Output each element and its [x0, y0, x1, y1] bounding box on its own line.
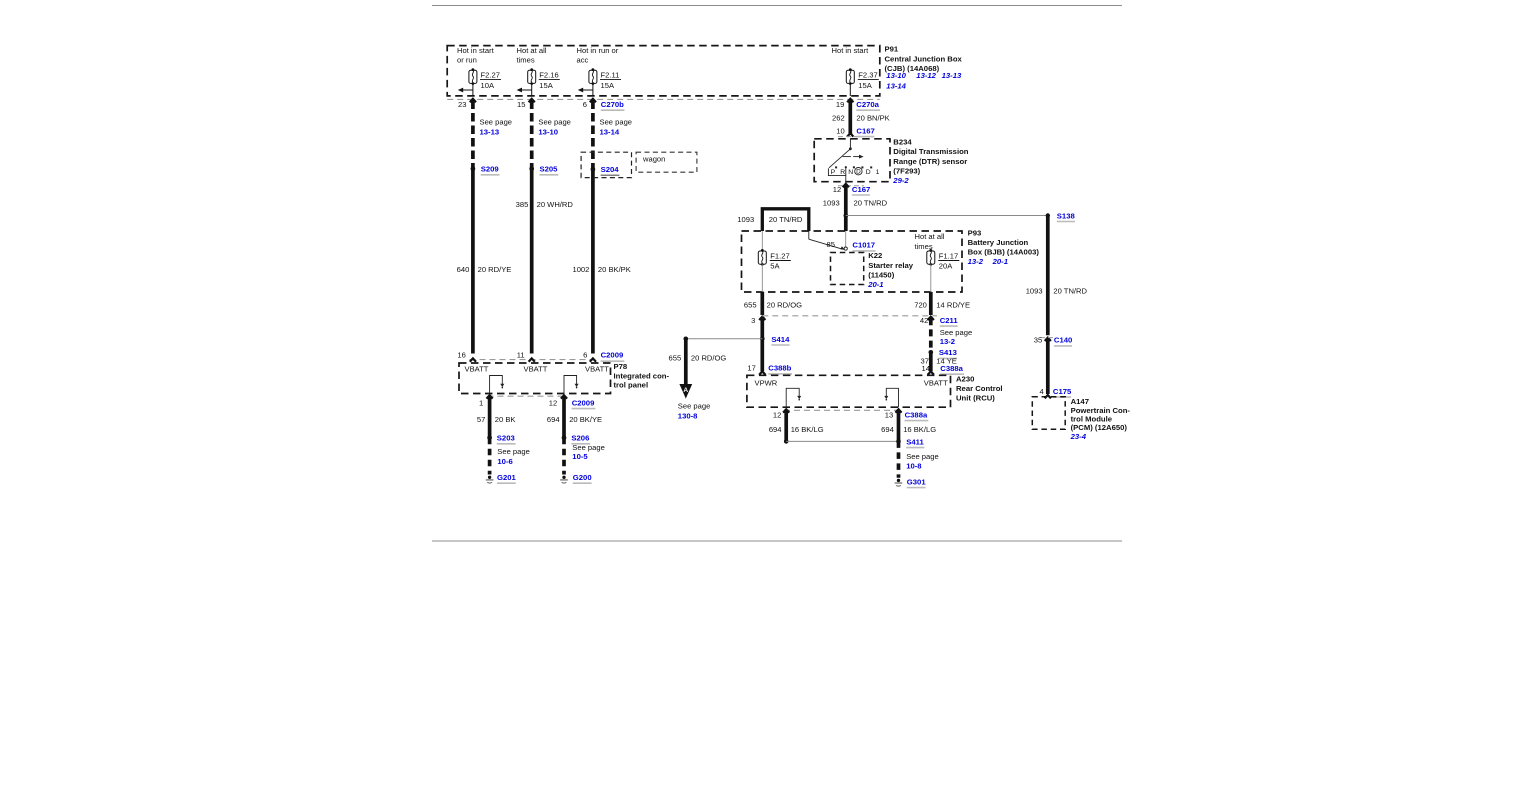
svg-text:(PCM) (12A650): (PCM) (12A650) [1071, 423, 1128, 432]
svg-text:acc: acc [577, 56, 589, 65]
svg-text:15: 15 [517, 100, 525, 109]
svg-text:10: 10 [836, 126, 844, 135]
svg-text:13-13: 13-13 [942, 71, 962, 80]
svg-text:23: 23 [458, 100, 466, 109]
wagon box [636, 152, 697, 172]
svg-text:VBATT: VBATT [924, 378, 948, 387]
svg-text:P: P [831, 169, 836, 176]
svg-text:S204: S204 [601, 165, 620, 174]
A230 text block [956, 374, 1003, 402]
splice S209 [471, 165, 500, 175]
svg-text:See page: See page [600, 118, 633, 127]
branch wire 1093 20 TN/RD into BJB [762, 209, 809, 231]
svg-text:720: 720 [914, 300, 927, 309]
svg-text:See page: See page [480, 118, 513, 127]
svg-text:S206: S206 [571, 434, 589, 443]
svg-text:13-10: 13-10 [538, 128, 558, 137]
svg-text:20 RD/OG: 20 RD/OG [767, 300, 803, 309]
svg-text:See page: See page [906, 452, 939, 461]
wire 1093 below DTR [843, 184, 849, 231]
svg-text:VPWR: VPWR [755, 378, 778, 387]
svg-text:A: A [683, 387, 688, 394]
svg-text:C140: C140 [1054, 336, 1072, 345]
wire 57 20 BK [487, 395, 493, 474]
connector C2009 [601, 351, 625, 362]
splice S205 [529, 165, 558, 175]
svg-text:20 TN/RD: 20 TN/RD [854, 198, 888, 207]
K22 text block [867, 251, 914, 289]
svg-text:4: 4 [1039, 387, 1043, 396]
svg-text:10A: 10A [481, 81, 495, 90]
svg-text:See page: See page [678, 401, 711, 410]
svg-text:See page: See page [538, 118, 571, 127]
wire 694 16 BK/LG left [783, 409, 789, 441]
svg-text:20 BK/PK: 20 BK/PK [598, 265, 631, 274]
svg-text:13-2: 13-2 [940, 337, 955, 346]
svg-text:35: 35 [1034, 336, 1042, 345]
svg-text:3: 3 [751, 316, 755, 325]
fuse F2.16 [517, 68, 560, 96]
svg-text:G200: G200 [573, 473, 592, 482]
svg-text:C270a: C270a [856, 100, 879, 109]
svg-text:13-14: 13-14 [600, 128, 620, 137]
top page rule [432, 5, 1122, 7]
svg-text:20 RD/OG: 20 RD/OG [691, 354, 727, 363]
svg-text:C270b: C270b [601, 100, 624, 109]
svg-text:20-1: 20-1 [992, 257, 1008, 266]
svg-text:S203: S203 [497, 434, 515, 443]
svg-text:F2.11: F2.11 [601, 71, 620, 80]
svg-text:F2.16: F2.16 [539, 71, 558, 80]
P93 Battery Junction Box outline [742, 231, 963, 292]
off-page arrow A wire 655 [679, 339, 692, 399]
splice S414 [684, 335, 791, 345]
svg-text:F2.37: F2.37 [858, 71, 877, 80]
svg-text:D: D [866, 169, 871, 176]
svg-text:Battery Junction: Battery Junction [968, 238, 1029, 247]
svg-text:1093: 1093 [823, 198, 840, 207]
svg-text:1093: 1093 [1026, 286, 1043, 295]
P91 Central Junction Box outline [447, 46, 880, 96]
svg-text:Hot in start: Hot in start [457, 46, 495, 55]
wire 694 16 BK/LG right [895, 409, 901, 478]
connector C167 bottom [833, 185, 871, 195]
svg-text:Hot in run or: Hot in run or [577, 46, 619, 55]
fuse F1.27 [758, 231, 791, 292]
connector line C2009 [470, 359, 595, 361]
svg-text:6: 6 [583, 100, 587, 109]
splice S204 [591, 165, 620, 175]
svg-text:13-13: 13-13 [480, 128, 500, 137]
DTR internal switch [828, 139, 879, 182]
connector C270b [601, 100, 625, 110]
fuse F1.17 [927, 249, 960, 292]
pin 42 / connector C211 [920, 316, 959, 326]
svg-text:13-2: 13-2 [968, 257, 984, 266]
svg-text:130-8: 130-8 [678, 411, 698, 420]
svg-text:14: 14 [922, 364, 930, 373]
ICP internal link left [490, 376, 505, 394]
svg-text:G201: G201 [497, 473, 517, 482]
svg-text:F1.27: F1.27 [770, 252, 789, 261]
svg-text:12: 12 [773, 410, 781, 419]
bottom page rule [432, 540, 1122, 542]
svg-text:C167: C167 [852, 185, 870, 194]
svg-text:20A: 20A [939, 262, 953, 271]
svg-text:10-6: 10-6 [497, 457, 512, 466]
svg-text:15A: 15A [539, 81, 553, 90]
svg-text:694: 694 [547, 415, 560, 424]
P91 header labels [457, 46, 869, 65]
splice S206 [562, 434, 591, 444]
connector C1017 [852, 241, 875, 251]
svg-text:F1.17: F1.17 [939, 252, 958, 261]
connector line C2009 bottom [488, 395, 567, 397]
svg-text:1093: 1093 [737, 215, 754, 224]
svg-text:655: 655 [669, 354, 682, 363]
svg-text:C388b: C388b [768, 364, 791, 373]
svg-text:11: 11 [517, 351, 525, 360]
svg-text:C211: C211 [940, 316, 959, 325]
svg-text:VBATT: VBATT [524, 365, 548, 374]
wire 1 dashed seg (circuit 640) [470, 99, 476, 354]
A230 Rear Control Unit box [747, 375, 951, 407]
connector line C211 [762, 315, 937, 317]
svg-text:Digital Transmission: Digital Transmission [893, 147, 968, 156]
svg-text:(7F293): (7F293) [893, 166, 920, 175]
svg-text:262: 262 [832, 113, 845, 122]
svg-text:57: 57 [477, 415, 485, 424]
svg-text:694: 694 [769, 425, 782, 434]
fuse F2.11 [578, 68, 621, 96]
svg-text:R: R [840, 169, 845, 176]
svg-text:15A: 15A [601, 81, 615, 90]
relay K22 pin 85 lead [809, 231, 848, 250]
pin 17 / connector C388b [747, 364, 792, 374]
svg-text:13-12: 13-12 [916, 71, 936, 80]
splice S203 [487, 434, 515, 444]
ICP internal link right [564, 376, 579, 394]
svg-text:23-4: 23-4 [1070, 432, 1087, 441]
svg-text:C388a: C388a [905, 410, 928, 419]
svg-text:See page: See page [497, 447, 530, 456]
svg-text:S411: S411 [906, 437, 924, 446]
pin 14 / connector C388a [922, 364, 964, 374]
svg-text:or run: or run [457, 56, 477, 65]
wire 3 (circuit 1002) [590, 99, 596, 354]
wire 2 (circuit 385) [529, 99, 535, 354]
svg-text:S205: S205 [540, 165, 559, 174]
svg-text:C2009: C2009 [601, 351, 624, 360]
svg-text:16 BK/LG: 16 BK/LG [791, 425, 824, 434]
svg-text:Range (DTR) sensor: Range (DTR) sensor [893, 157, 967, 166]
svg-text:VBATT: VBATT [585, 365, 609, 374]
svg-text:14 RD/YE: 14 RD/YE [936, 300, 970, 309]
wire 694 20 BK/YE [561, 395, 567, 474]
chevrons into ICP [470, 358, 476, 361]
ground G200 [560, 473, 591, 483]
svg-text:P93: P93 [968, 228, 982, 237]
svg-text:20 RD/YE: 20 RD/YE [478, 265, 512, 274]
svg-text:20 BK: 20 BK [495, 415, 516, 424]
svg-text:12: 12 [549, 398, 557, 407]
svg-text:P78: P78 [614, 362, 628, 371]
svg-text:20 TN/RD: 20 TN/RD [769, 215, 803, 224]
splice line to S138 [846, 215, 1048, 217]
svg-text:Integrated con-: Integrated con- [614, 371, 670, 380]
svg-text:694: 694 [881, 425, 894, 434]
svg-text:29-2: 29-2 [892, 176, 909, 185]
svg-text:20 WH/RD: 20 WH/RD [537, 200, 574, 209]
P78 Integrated control panel box [459, 363, 611, 394]
svg-text:1002: 1002 [572, 265, 589, 274]
svg-text:385: 385 [516, 200, 529, 209]
pin 4 / connector C175 [1039, 387, 1072, 397]
junction node [844, 213, 849, 218]
svg-text:S138: S138 [1057, 211, 1076, 220]
svg-text:C167: C167 [856, 126, 874, 135]
svg-text:F2.27: F2.27 [481, 71, 500, 80]
svg-text:Hot in start: Hot in start [832, 46, 870, 55]
splice S138 [1046, 211, 1076, 221]
svg-text:13-10: 13-10 [886, 71, 906, 80]
svg-text:trol panel: trol panel [614, 381, 649, 390]
pin 13 / connector C388a [885, 410, 929, 420]
svg-text:Starter relay: Starter relay [868, 261, 914, 270]
svg-text:15A: 15A [858, 81, 872, 90]
svg-text:5A: 5A [770, 262, 780, 271]
svg-text:Hot at all: Hot at all [517, 46, 547, 55]
svg-text:10-5: 10-5 [572, 452, 588, 461]
svg-text:C388a: C388a [940, 364, 963, 373]
svg-text:Hot at all: Hot at all [915, 232, 945, 241]
fuse F2.37 [846, 68, 879, 96]
svg-text:Unit (RCU): Unit (RCU) [956, 394, 995, 403]
connector C270a [856, 100, 880, 110]
S204 option box [581, 152, 631, 177]
svg-text:655: 655 [744, 300, 757, 309]
svg-text:12: 12 [833, 185, 841, 194]
svg-text:6: 6 [583, 351, 587, 360]
wire 1093 to PCM [1045, 216, 1051, 399]
svg-text:13: 13 [885, 410, 893, 419]
svg-text:19: 19 [836, 100, 844, 109]
RCU internal link left [786, 388, 801, 407]
A147 text block [1070, 397, 1131, 441]
P91 text block [885, 45, 963, 91]
svg-text:A230: A230 [956, 374, 974, 383]
ground G301 [895, 477, 927, 487]
connector line C388a bottom [784, 409, 901, 411]
connector line C270 below CJB [447, 98, 880, 100]
svg-text:640: 640 [457, 265, 470, 274]
splice S413 [929, 348, 958, 358]
svg-text:20 TN/RD: 20 TN/RD [1053, 286, 1087, 295]
svg-text:1: 1 [479, 398, 483, 407]
wire 720 14 RD/YE below BJB [928, 292, 934, 375]
svg-text:C1017: C1017 [852, 241, 875, 250]
A147 PCM box [1032, 397, 1065, 430]
svg-text:Central Junction Box: Central Junction Box [885, 54, 963, 63]
K22 starter relay box [831, 253, 864, 285]
svg-text:C175: C175 [1053, 387, 1072, 396]
svg-text:VBATT: VBATT [465, 365, 489, 374]
fuse F2.27 [458, 68, 501, 96]
svg-text:Box (BJB) (14A003): Box (BJB) (14A003) [968, 248, 1040, 257]
svg-text:1: 1 [876, 169, 880, 176]
ground G201 [486, 473, 517, 483]
svg-text:85: 85 [827, 240, 835, 249]
wire 655 20 RD/OG below BJB [759, 292, 765, 375]
svg-text:P91: P91 [885, 45, 899, 54]
P78 text block [614, 362, 670, 389]
svg-text:17: 17 [747, 364, 755, 373]
svg-text:N: N [848, 169, 853, 176]
svg-text:20-1: 20-1 [867, 280, 883, 289]
B234 text block [892, 138, 968, 185]
svg-text:16 BK/LG: 16 BK/LG [903, 425, 936, 434]
wire F2.37 down to C167 [847, 99, 853, 137]
connector C167 top [836, 126, 875, 136]
svg-text:S414: S414 [771, 335, 790, 344]
P93 text block [968, 228, 1040, 266]
svg-text:G301: G301 [907, 477, 927, 486]
svg-text:S209: S209 [481, 165, 499, 174]
svg-text:42: 42 [920, 316, 928, 325]
svg-text:10-8: 10-8 [906, 461, 922, 470]
svg-text:Rear Control: Rear Control [956, 384, 1003, 393]
svg-text:times: times [517, 56, 535, 65]
svg-text:13-14: 13-14 [886, 81, 906, 90]
svg-text:20 BK/YE: 20 BK/YE [569, 415, 602, 424]
connector C2009 lower [572, 398, 596, 408]
svg-text:16: 16 [457, 351, 465, 360]
B234 DTR sensor box [814, 139, 890, 182]
svg-text:B234: B234 [893, 138, 912, 147]
svg-text:C2009: C2009 [572, 398, 595, 407]
svg-text:See page: See page [572, 443, 605, 452]
svg-text:wagon: wagon [642, 155, 665, 164]
svg-text:20 BN/PK: 20 BN/PK [856, 113, 889, 122]
svg-text:K22: K22 [868, 251, 882, 260]
RCU internal link right [884, 388, 898, 407]
pin 35 / connector C140 [1034, 336, 1073, 346]
svg-text:(11450): (11450) [868, 270, 895, 279]
splice S411 [784, 437, 925, 447]
